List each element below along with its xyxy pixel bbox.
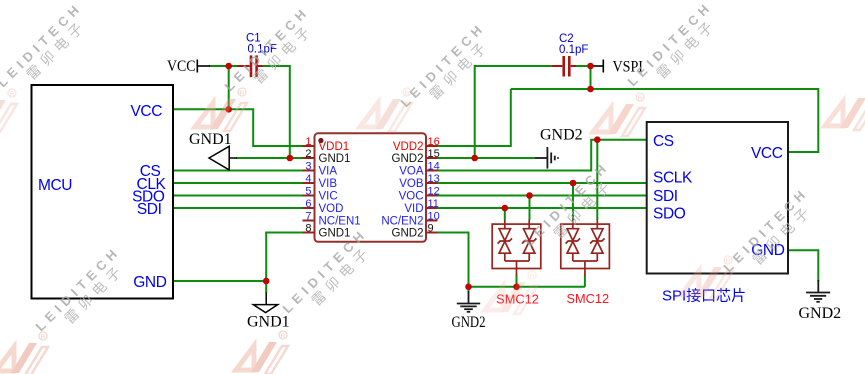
wire GND1 port to isolator pin 2	[236, 157, 304, 159]
svg-text:SCLK: SCLK	[653, 170, 693, 187]
wire MCU GND to GND1 / pin 8	[173, 233, 304, 294]
wire CS TVS riser	[596, 140, 598, 220]
svg-text:GND1: GND1	[247, 314, 290, 331]
isolator right pin names	[381, 141, 424, 240]
junction VCC/C1	[225, 63, 232, 70]
svg-text:MCU: MCU	[38, 177, 72, 194]
wire VOC pin12 to chip SDI	[437, 195, 647, 197]
GND2 earth below pin9	[457, 291, 480, 312]
svg-text:GND1: GND1	[189, 131, 232, 148]
wire VSPI riser	[590, 66, 592, 89]
wire MCU SDI to VOD	[173, 207, 304, 209]
pin 14 stub	[426, 170, 438, 172]
capacitor C2	[552, 56, 576, 77]
svg-text:VCC: VCC	[751, 145, 783, 162]
svg-text:GND2: GND2	[392, 153, 424, 165]
svg-text:GND1: GND1	[319, 153, 351, 165]
svg-text:GND2: GND2	[452, 314, 486, 331]
pin 10 stub	[426, 220, 438, 222]
wire VCC riser to MCU VCC line	[228, 66, 230, 109]
junction VSPI rail	[587, 86, 594, 93]
TVS D1 diode a	[499, 229, 510, 254]
pin 11 stub	[426, 207, 438, 209]
wire MCU CS to VIA	[173, 170, 304, 172]
junction CS TVS	[594, 136, 601, 143]
wire GND2 pin9 down to bus	[437, 233, 469, 292]
wire SCLK TVS riser	[572, 183, 574, 220]
GND1 bottom power port triangle	[253, 293, 277, 313]
svg-text:VIB: VIB	[319, 178, 338, 190]
isolator left pin numbers	[305, 136, 311, 235]
svg-text:4: 4	[305, 173, 311, 185]
svg-text:SDO: SDO	[653, 205, 686, 222]
junction VSPI	[587, 63, 594, 70]
GND1 side power port arrow	[209, 146, 237, 170]
wire VID pin11 to chip SDO	[437, 207, 647, 209]
svg-text:VOA: VOA	[399, 166, 424, 178]
svg-text:0.1pF: 0.1pF	[559, 44, 588, 56]
GND2 sideways earth at pin15	[535, 147, 558, 169]
pin 13 stub	[426, 182, 438, 184]
wire C2 right plate to VSPI junction	[576, 65, 591, 67]
svg-text:14: 14	[428, 160, 440, 172]
pin 15 stub	[426, 157, 438, 159]
wire TVS2 bottom drop	[584, 275, 586, 287]
MCU pin labels	[130, 103, 166, 291]
svg-text:SDI: SDI	[653, 188, 678, 205]
svg-text:11: 11	[428, 198, 439, 210]
svg-text:VOB: VOB	[399, 178, 424, 190]
pin 9 stub	[426, 232, 438, 234]
svg-text:VCC: VCC	[130, 103, 162, 120]
MCU box	[32, 85, 174, 299]
wire VSPI rail to chip VCC	[511, 89, 819, 152]
svg-text:3: 3	[305, 160, 311, 172]
svg-text:GND: GND	[133, 274, 166, 291]
junction SDI TVS	[526, 192, 533, 199]
svg-text:VIC: VIC	[319, 191, 338, 203]
svg-text:SDI: SDI	[137, 201, 162, 218]
svg-text:12: 12	[428, 185, 440, 197]
VCC power port tick	[197, 60, 210, 73]
junction SCLK TVS	[570, 180, 577, 187]
GND2 earth bottom right	[806, 280, 830, 302]
pin 12 stub	[426, 195, 438, 197]
wire MCU VCC to C1/VDD1 junction	[173, 109, 304, 146]
isolator left pin names	[319, 141, 361, 240]
svg-text:CS: CS	[653, 133, 674, 150]
wire SDI TVS riser	[529, 196, 531, 221]
pin 2 stub	[303, 157, 315, 159]
svg-text:16: 16	[428, 136, 440, 148]
pin 8 stub	[303, 232, 315, 234]
svg-text:GND1: GND1	[319, 228, 351, 240]
SPI chip pin labels	[653, 133, 785, 259]
svg-text:2: 2	[305, 148, 311, 160]
isolator pin1 marker dot	[318, 138, 323, 143]
junction MCU VCC	[225, 106, 232, 113]
isolator right pin numbers	[428, 136, 440, 235]
pin 1 stub	[303, 145, 315, 147]
wire MCU CLK to VIB	[173, 182, 304, 184]
wire VOB pin13 to chip SCLK	[437, 182, 647, 184]
junction GND2 bus	[465, 284, 472, 291]
TVS array D2 SMC12 box	[561, 220, 610, 276]
pin 16 stub	[426, 145, 438, 147]
svg-text:VDD2: VDD2	[393, 141, 424, 153]
wire chip GND to earth	[788, 250, 818, 281]
capacitor C1	[237, 55, 263, 77]
svg-text:GND2: GND2	[540, 127, 583, 144]
junction GND2/C2	[471, 155, 478, 162]
wire GND2 bottom bus	[469, 286, 585, 288]
svg-text:NC/EN1: NC/EN1	[319, 216, 361, 228]
svg-text:10: 10	[428, 210, 440, 222]
svg-text:13: 13	[428, 173, 440, 185]
svg-text:GND2: GND2	[799, 305, 842, 322]
svg-text:15: 15	[428, 148, 440, 160]
TVS D2 diode a	[567, 229, 578, 254]
TVS D1 diode b	[524, 229, 535, 254]
pin 7 stub	[303, 220, 315, 222]
TVS array D1 SMC12 box	[492, 220, 541, 276]
svg-text:VCC: VCC	[167, 58, 196, 75]
svg-text:VOC: VOC	[399, 191, 424, 203]
svg-text:VIA: VIA	[319, 166, 338, 178]
svg-text:8: 8	[305, 222, 311, 234]
pin 6 stub	[303, 207, 315, 209]
svg-text:6: 6	[305, 198, 311, 210]
svg-text:NC/EN2: NC/EN2	[381, 216, 423, 228]
pin 3 stub	[303, 170, 315, 172]
VSPI power port tick	[591, 60, 604, 73]
pin 4 stub	[303, 182, 315, 184]
svg-text:SMC12: SMC12	[566, 291, 609, 306]
svg-text:VOD: VOD	[319, 203, 344, 215]
wire TVS1 bottom drop	[516, 275, 518, 287]
wire MCU SDO to VIC	[173, 195, 304, 197]
wire C2 left plate to GND2 net riser	[475, 66, 558, 158]
wire VCC port to C1 left plate	[209, 65, 249, 67]
wire GND2 pin15 to earth	[437, 157, 535, 159]
SPI interface chip box	[647, 122, 788, 274]
junction SDO TVS	[502, 205, 509, 212]
svg-text:5: 5	[305, 185, 311, 197]
svg-text:1: 1	[305, 136, 311, 148]
junction TVS1 bus	[513, 284, 520, 291]
wire VOA pin14 to chip CS	[437, 140, 647, 171]
pin 5 stub	[303, 195, 315, 197]
svg-text:9: 9	[428, 222, 434, 234]
svg-text:7: 7	[305, 210, 311, 222]
svg-text:VID: VID	[404, 203, 423, 215]
TVS D2 diode b	[592, 229, 603, 254]
wire SDO TVS riser	[504, 208, 506, 220]
junction MCU GND	[263, 278, 270, 285]
junction GND1/C1	[287, 155, 294, 162]
wire C1 right plate down to GND1 net	[258, 66, 290, 158]
isolator U1 box	[315, 133, 427, 242]
svg-text:VDD1: VDD1	[319, 141, 350, 153]
svg-text:GND2: GND2	[392, 228, 424, 240]
wire VDD2 pin16 to rail	[437, 89, 511, 146]
